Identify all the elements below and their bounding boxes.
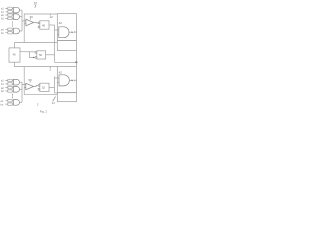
block 14 (upper big block) <box>57 14 76 41</box>
junction dot <box>75 61 77 63</box>
block 16 (lower compartment of upper block) <box>57 41 76 51</box>
vertical bus lower channel <box>54 77 56 94</box>
arrowhead A2 output <box>72 80 74 82</box>
svg-text:42: 42 <box>59 21 63 25</box>
arrowhead A1 output <box>72 31 74 33</box>
collector wire top cluster <box>21 10 23 31</box>
svg-text:50: 50 <box>39 53 43 57</box>
input row R3: wires to boxes <box>5 29 7 32</box>
wire y=42.5 feedback lower <box>15 42 58 44</box>
ellipsis dots top cluster <box>12 22 13 23</box>
block 52 <box>40 83 49 91</box>
vertical bus x=54.5 upper <box>54 25 56 62</box>
wire block 50 output <box>46 54 55 56</box>
input row R3: output wire <box>20 30 23 32</box>
input row R1: terminal boxes <box>8 7 12 9</box>
svg-text:12: 12 <box>50 15 54 19</box>
wire collector to gate M1 input 1 <box>22 20 26 22</box>
input row R1: wires to gate <box>12 8 13 11</box>
leader tick label 50 <box>29 81 32 82</box>
wire feedback to gate M2 input 2 <box>24 86 26 88</box>
input row R2: terminal boxes <box>8 14 12 16</box>
wire top feedback y=14 <box>24 14 57 43</box>
arrowhead into block 50 lower nub <box>33 57 35 59</box>
input row R5: wires to gate <box>12 88 13 91</box>
input row R3: terminal boxes <box>8 28 12 30</box>
block 24 (lower big block) <box>57 67 76 93</box>
input row R1: wires to boxes <box>5 8 7 11</box>
input row R5: terminal boxes <box>8 86 12 88</box>
input row R6: terminal boxes <box>8 100 12 102</box>
svg-text:52: 52 <box>42 86 46 90</box>
input row R4: and-gate <box>13 79 19 85</box>
stub bus to gate A2 input <box>55 77 58 79</box>
svg-text:30: 30 <box>30 15 34 19</box>
wire gate A2 input 2 <box>57 82 59 84</box>
wire gate A1 input 1 <box>57 29 59 31</box>
wire block46 bottom out to lower channel <box>15 62 58 66</box>
svg-text:10: 10 <box>34 1 38 5</box>
input row R4: output wire <box>20 81 23 83</box>
input row R3: wires to gate <box>12 29 13 32</box>
hook at bus bottom <box>55 92 58 94</box>
input row R6: and-gate <box>13 100 19 106</box>
leader line for label 10 <box>35 5 36 8</box>
wire block 40 output to vertical bus <box>49 24 55 26</box>
input row R4: wires to gate <box>12 81 13 84</box>
wire gate M1 output <box>34 22 39 24</box>
wire block46 out stepped to lower nub <box>30 52 34 58</box>
stub bus to gate A1 input <box>55 29 58 31</box>
input row R6: output wire <box>20 101 23 103</box>
wire gate M2 output <box>34 85 39 86</box>
block 46 <box>9 48 20 62</box>
input row R2: and-gate <box>13 14 19 20</box>
svg-text:Fig. 2: Fig. 2 <box>40 110 48 114</box>
input row R1: output wire <box>20 9 23 11</box>
block 40: input nubs <box>38 22 40 24</box>
input row R2: output wire <box>20 16 23 18</box>
input row R1: and-gate <box>13 7 19 13</box>
input row R6: wires to boxes <box>5 101 7 104</box>
svg-text:46: 46 <box>13 53 16 57</box>
wire down into block 46 <box>14 43 16 48</box>
input row R5: and-gate <box>13 87 19 93</box>
wire gate A1 input 2 <box>57 33 59 35</box>
wire collector to gate M2 input 1 <box>22 84 26 86</box>
wire block46 out right to block 50 upper nub <box>20 51 35 53</box>
collector wire bottom cluster <box>21 82 23 102</box>
block 50 <box>37 51 46 59</box>
block 52: input nubs <box>38 85 40 87</box>
wire gate A2 input 1 <box>57 77 59 79</box>
wire gate A1 output <box>69 31 72 33</box>
wire block 52 output <box>49 86 55 88</box>
amplifier triangle M1 (middle) <box>26 19 34 26</box>
leader tick label 22 <box>49 67 52 68</box>
block 50: input nubs <box>35 52 37 54</box>
svg-text:50: 50 <box>29 78 33 82</box>
input row R4: terminal boxes <box>8 79 12 81</box>
wire bus corner to junction <box>55 61 77 63</box>
block 26 (lower compartment of lower block) <box>57 93 76 102</box>
input row R4: wires to boxes <box>5 81 7 84</box>
wire y=94.7 feedback lower channel <box>24 94 57 96</box>
leader tick label 12 <box>49 14 52 15</box>
input row R5: output wire <box>20 88 23 90</box>
leader tick label 30 <box>29 18 32 19</box>
input row R2: wires to gate <box>12 15 13 18</box>
svg-text:40: 40 <box>42 23 46 27</box>
wire gate A2 output <box>69 79 71 81</box>
amplifier triangle M2 (middle lower) <box>26 83 34 89</box>
block 40 <box>40 21 49 29</box>
feedback vertical lower channel <box>23 67 25 95</box>
input row R6: wires to gate <box>12 101 13 104</box>
ellipsis dots bottom cluster <box>12 94 13 95</box>
leader diagonal at lower right <box>53 97 56 102</box>
wire right edge connecting blocks <box>75 51 77 67</box>
svg-text:42: 42 <box>59 70 63 74</box>
and-gate A1 inside block 14 <box>59 27 69 38</box>
input row R2: wires to boxes <box>5 15 7 18</box>
input row R5: wires to boxes <box>5 88 7 91</box>
wire feedback to gate M1 input 2 <box>24 23 26 25</box>
input row R3: and-gate <box>13 28 19 34</box>
and-gate A2 inside block 24 <box>59 75 69 86</box>
